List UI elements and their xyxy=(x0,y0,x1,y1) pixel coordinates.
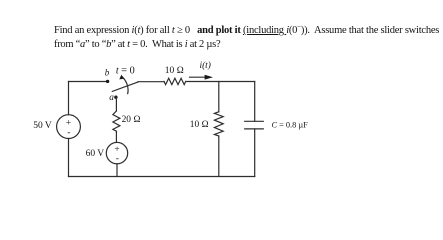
switch motion arc with arrowhead xyxy=(122,77,128,94)
svg-text:60 V: 60 V xyxy=(86,149,105,159)
svg-text:50 V: 50 V xyxy=(33,121,52,131)
resistor 20ohm xyxy=(113,111,120,131)
svg-text:-: - xyxy=(67,128,70,138)
source 50V xyxy=(57,115,81,139)
wire bottom rail xyxy=(69,176,255,178)
node a xyxy=(109,93,117,103)
svg-text:C = 0.8 µF: C = 0.8 µF xyxy=(272,121,309,130)
resistor 10ohm horizontal xyxy=(164,78,186,84)
svg-text:10 Ω: 10 Ω xyxy=(190,120,209,130)
wire left rail bottom xyxy=(68,139,70,177)
problem statement text xyxy=(54,20,439,53)
svg-text:a: a xyxy=(109,93,114,103)
wire 10ohm branch top xyxy=(218,82,220,112)
wire capacitor branch bottom xyxy=(254,129,256,177)
wire 60V to bottom xyxy=(116,164,118,177)
svg-text:20 Ω: 20 Ω xyxy=(122,115,141,125)
svg-text:10 Ω: 10 Ω xyxy=(165,66,184,76)
wire resistor to 60V source xyxy=(115,131,117,142)
wire a to resistor xyxy=(115,97,117,111)
wire 10ohm branch bottom xyxy=(218,136,220,177)
source 60V xyxy=(106,142,127,163)
wire switch to resistor xyxy=(138,81,164,83)
resistor 10ohm vertical xyxy=(214,112,223,136)
svg-text:-: - xyxy=(116,154,119,164)
wire top-left horizontal xyxy=(69,81,106,83)
wire left rail top xyxy=(68,82,70,115)
svg-text:i(t): i(t) xyxy=(200,60,211,71)
svg-text:b: b xyxy=(105,67,110,77)
capacitor C plates xyxy=(245,120,264,122)
svg-text:t = 0: t = 0 xyxy=(116,65,135,76)
current arrow i(t) xyxy=(190,76,207,78)
node b xyxy=(105,67,110,83)
wire capacitor branch top xyxy=(254,82,256,122)
switch blade xyxy=(112,82,138,91)
wire resistor to right xyxy=(187,81,255,83)
